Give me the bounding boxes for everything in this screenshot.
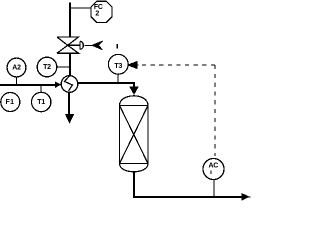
instrument T3 <box>108 54 128 74</box>
wire: T1 tick to feed line <box>40 84 42 92</box>
svg-text:F1: F1 <box>6 99 15 106</box>
wire: T3 tick to stream <box>117 74 119 83</box>
signal: dashed line AC to T3 with arrow <box>128 62 215 156</box>
svg-text:T3: T3 <box>114 63 122 70</box>
wire: AC tick to product line <box>213 180 215 198</box>
wire: top vertical pipe above valve <box>69 3 71 38</box>
column C1 (packed column) <box>120 96 149 172</box>
heat exchanger HX (circle with zigzag) <box>61 76 78 93</box>
instrument F1 <box>1 93 20 112</box>
stream: feed line with arrow into mixer <box>0 82 60 87</box>
stream: utility outlet down with arrow <box>66 92 73 122</box>
svg-text:T1: T1 <box>37 99 45 106</box>
svg-text:2: 2 <box>95 11 99 18</box>
wire: T2 to pipe <box>57 66 70 68</box>
controller FC2 (octagon) <box>91 1 112 22</box>
svg-text:A2: A2 <box>12 65 21 72</box>
instrument A2 <box>7 58 26 77</box>
wire: dash above T3 <box>116 44 118 48</box>
svg-text:T2: T2 <box>43 64 51 71</box>
instrument T1 <box>32 92 51 111</box>
instrument T2 <box>37 57 57 77</box>
stream: bottom product line with arrow <box>134 172 251 200</box>
valve actuator arrow (signal into valve) <box>68 41 103 50</box>
wire: line from pipe to controller FC2 <box>69 7 91 9</box>
wire: A2 tick to feed line <box>16 77 18 85</box>
valve V1 (control valve bowtie) <box>57 37 79 53</box>
stream: mixer to column top <box>78 83 138 94</box>
wire: pipe valve to heater circle <box>69 53 71 76</box>
svg-text:AC: AC <box>208 162 218 169</box>
instrument AC <box>203 159 224 180</box>
